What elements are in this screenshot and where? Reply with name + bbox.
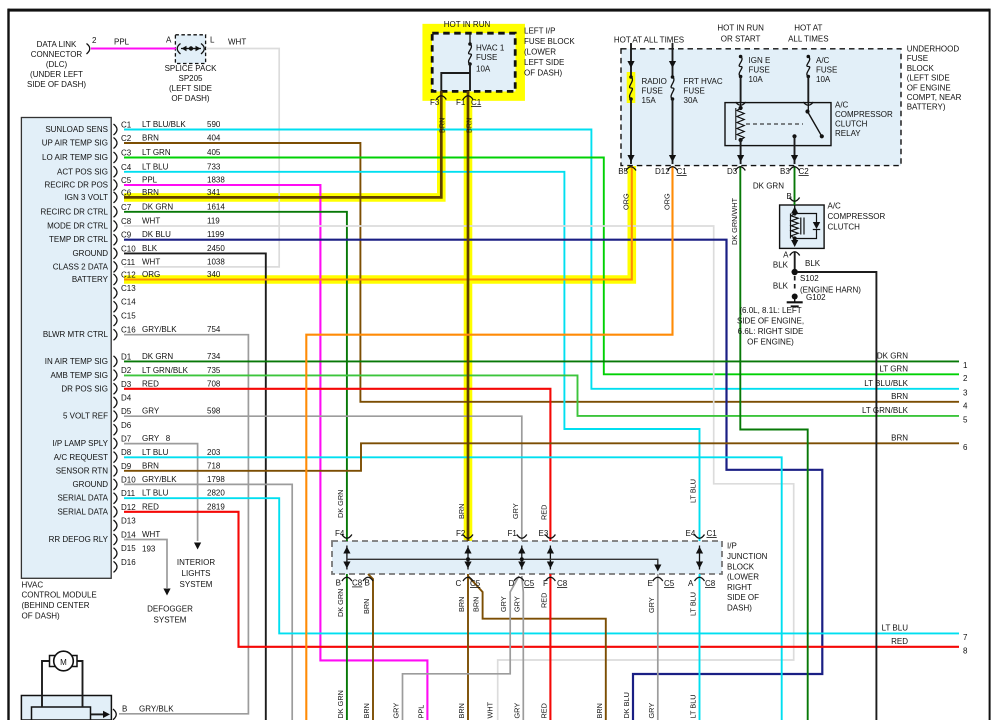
svg-text:10A: 10A xyxy=(476,65,491,74)
svg-text:HOT AT ALL TIMES: HOT AT ALL TIMES xyxy=(614,36,684,45)
svg-text:DEFOGGER: DEFOGGER xyxy=(147,605,193,614)
svg-text:DK GRN: DK GRN xyxy=(877,351,908,360)
svg-text:FUSE BLOCK: FUSE BLOCK xyxy=(524,37,575,46)
svg-text:WHT: WHT xyxy=(228,38,246,47)
svg-text:BRN: BRN xyxy=(362,703,371,718)
svg-text:B: B xyxy=(122,705,127,714)
svg-text:FUSE: FUSE xyxy=(749,66,770,75)
svg-text:A/C: A/C xyxy=(816,56,830,65)
svg-text:OF DASH): OF DASH) xyxy=(171,94,210,103)
svg-text:ORG: ORG xyxy=(622,193,631,210)
svg-text:ORG: ORG xyxy=(662,193,671,210)
svg-text:C13: C13 xyxy=(121,284,136,293)
svg-text:8: 8 xyxy=(963,646,968,655)
svg-text:COMPRESSOR: COMPRESSOR xyxy=(835,110,893,119)
svg-text:B: B xyxy=(365,579,370,588)
svg-text:LT BLU: LT BLU xyxy=(142,448,169,457)
svg-text:10A: 10A xyxy=(749,75,764,84)
svg-text:6.6L: RIGHT SIDE: 6.6L: RIGHT SIDE xyxy=(738,327,804,336)
svg-text:GROUND: GROUND xyxy=(72,249,108,258)
svg-text:SENSOR RTN: SENSOR RTN xyxy=(56,466,109,475)
svg-text:IGN 3 VOLT: IGN 3 VOLT xyxy=(65,193,109,202)
svg-text:BATTERY: BATTERY xyxy=(72,275,109,284)
svg-text:CLUTCH: CLUTCH xyxy=(828,223,861,232)
svg-text:SERIAL DATA: SERIAL DATA xyxy=(57,507,108,516)
svg-text:SIDE OF ENGINE,: SIDE OF ENGINE, xyxy=(737,317,804,326)
svg-text:ALL TIMES: ALL TIMES xyxy=(788,35,828,44)
svg-text:C11: C11 xyxy=(121,258,136,267)
svg-text:D14: D14 xyxy=(121,531,136,540)
svg-text:BRN: BRN xyxy=(142,134,159,143)
svg-text:(DLC): (DLC) xyxy=(46,60,68,69)
svg-text:D8: D8 xyxy=(121,448,132,457)
svg-text:RED: RED xyxy=(539,593,548,608)
svg-text:HVAC 1: HVAC 1 xyxy=(476,44,505,53)
svg-text:D16: D16 xyxy=(121,558,136,567)
svg-text:718: 718 xyxy=(207,461,221,470)
svg-text:B: B xyxy=(787,192,792,201)
svg-text:BATTERY): BATTERY) xyxy=(907,103,946,112)
svg-text:(UNDER LEFT: (UNDER LEFT xyxy=(30,70,83,79)
svg-text:COMPRESSOR: COMPRESSOR xyxy=(828,212,886,221)
svg-text:CONTROL MODULE: CONTROL MODULE xyxy=(22,591,97,600)
svg-text:C6: C6 xyxy=(121,188,132,197)
svg-text:2: 2 xyxy=(963,374,968,383)
svg-text:LT BLU: LT BLU xyxy=(882,623,909,632)
svg-text:DK GRN: DK GRN xyxy=(142,352,173,361)
svg-text:BRN: BRN xyxy=(457,703,466,718)
svg-text:LO AIR TEMP SIG: LO AIR TEMP SIG xyxy=(42,153,108,162)
svg-text:1199: 1199 xyxy=(207,230,225,239)
svg-text:PPL: PPL xyxy=(142,176,158,185)
svg-text:D13: D13 xyxy=(121,517,136,526)
svg-text:B3: B3 xyxy=(780,167,790,176)
svg-text:6: 6 xyxy=(963,443,968,452)
svg-text:WHT: WHT xyxy=(486,701,495,718)
svg-text:LT GRN: LT GRN xyxy=(142,148,171,157)
svg-text:D3: D3 xyxy=(727,167,738,176)
svg-text:C9: C9 xyxy=(121,231,132,240)
svg-text:404: 404 xyxy=(207,134,221,143)
svg-text:OF ENGINE): OF ENGINE) xyxy=(747,338,794,347)
svg-text:C10: C10 xyxy=(121,244,136,253)
svg-text:C1: C1 xyxy=(677,167,688,176)
svg-text:C2: C2 xyxy=(121,134,132,143)
svg-text:LT GRN: LT GRN xyxy=(879,364,908,373)
svg-text:DASH): DASH) xyxy=(727,604,752,613)
svg-text:590: 590 xyxy=(207,120,221,129)
svg-text:(LOWER: (LOWER xyxy=(727,573,759,582)
svg-text:A/C REQUEST: A/C REQUEST xyxy=(54,453,108,462)
svg-text:1614: 1614 xyxy=(207,202,225,211)
svg-text:GRY: GRY xyxy=(512,596,521,612)
svg-text:WHT: WHT xyxy=(142,257,160,266)
svg-text:ACT POS SIG: ACT POS SIG xyxy=(57,167,108,176)
svg-text:C5: C5 xyxy=(121,176,132,185)
svg-text:FRT HVAC: FRT HVAC xyxy=(684,77,723,86)
svg-text:SIDE OF DASH): SIDE OF DASH) xyxy=(27,80,86,89)
svg-text:GRY: GRY xyxy=(142,407,160,416)
svg-text:DK GRN: DK GRN xyxy=(336,490,345,518)
svg-text:D15: D15 xyxy=(121,544,136,553)
svg-text:C5: C5 xyxy=(664,579,675,588)
svg-text:BLWR MTR CTRL: BLWR MTR CTRL xyxy=(43,330,109,339)
svg-text:COMPT, NEAR: COMPT, NEAR xyxy=(907,93,962,102)
svg-text:LT BLU/BLK: LT BLU/BLK xyxy=(864,379,908,388)
svg-text:2: 2 xyxy=(92,36,97,45)
svg-text:RADIO: RADIO xyxy=(642,77,667,86)
svg-text:RECIRC DR POS: RECIRC DR POS xyxy=(44,181,108,190)
svg-text:BLOCK: BLOCK xyxy=(727,562,755,571)
svg-text:733: 733 xyxy=(207,162,221,171)
svg-text:2819: 2819 xyxy=(207,502,225,511)
svg-text:E: E xyxy=(648,579,653,588)
svg-text:SYSTEM: SYSTEM xyxy=(154,616,187,625)
svg-text:C15: C15 xyxy=(121,312,136,321)
svg-text:BLK: BLK xyxy=(142,244,158,253)
svg-text:LT BLU: LT BLU xyxy=(689,694,698,718)
svg-text:WHT: WHT xyxy=(142,217,160,226)
svg-text:203: 203 xyxy=(207,448,221,457)
svg-text:CLUTCH: CLUTCH xyxy=(835,120,868,129)
svg-text:DK BLU: DK BLU xyxy=(622,692,631,718)
svg-text:WHT: WHT xyxy=(142,530,160,539)
svg-text:341: 341 xyxy=(207,188,221,197)
svg-text:2820: 2820 xyxy=(207,489,225,498)
svg-text:DATA LINK: DATA LINK xyxy=(37,40,77,49)
svg-text:GROUND: GROUND xyxy=(72,480,108,489)
svg-text:FUSE: FUSE xyxy=(684,87,705,96)
svg-text:F1: F1 xyxy=(508,529,518,538)
svg-text:F1: F1 xyxy=(456,98,466,107)
svg-text:JUNCTION: JUNCTION xyxy=(727,552,768,561)
svg-text:C16: C16 xyxy=(121,326,136,335)
svg-text:5: 5 xyxy=(963,415,968,424)
svg-text:193: 193 xyxy=(142,545,156,554)
svg-text:GRY: GRY xyxy=(392,703,401,719)
svg-text:HVAC: HVAC xyxy=(22,580,44,589)
svg-text:734: 734 xyxy=(207,352,221,361)
svg-text:OF ENGINE: OF ENGINE xyxy=(907,83,951,92)
svg-text:IGN E: IGN E xyxy=(749,56,771,65)
svg-text:30A: 30A xyxy=(684,96,699,105)
svg-text:735: 735 xyxy=(207,366,221,375)
svg-text:C4: C4 xyxy=(121,163,132,172)
svg-text:L: L xyxy=(210,36,215,45)
svg-text:BLK: BLK xyxy=(773,282,789,291)
svg-text:A: A xyxy=(783,251,789,260)
svg-text:GRY/BLK: GRY/BLK xyxy=(139,705,174,714)
svg-text:DK GRN: DK GRN xyxy=(753,182,784,191)
svg-text:LT BLU/BLK: LT BLU/BLK xyxy=(142,120,186,129)
svg-text:FUSE: FUSE xyxy=(907,54,928,63)
svg-text:FUSE: FUSE xyxy=(816,66,837,75)
svg-text:C8: C8 xyxy=(352,579,363,588)
svg-text:B5: B5 xyxy=(618,167,628,176)
svg-text:BRN: BRN xyxy=(472,597,481,612)
svg-text:I/P: I/P xyxy=(727,542,737,551)
svg-text:1: 1 xyxy=(963,361,968,370)
svg-text:RED: RED xyxy=(142,502,159,511)
svg-text:DK GRN: DK GRN xyxy=(336,690,345,718)
svg-text:DK GRN/WHT: DK GRN/WHT xyxy=(730,197,739,245)
svg-text:C8: C8 xyxy=(705,579,716,588)
svg-text:3: 3 xyxy=(963,388,968,397)
svg-text:S102: S102 xyxy=(800,274,819,283)
svg-text:C1: C1 xyxy=(121,121,132,130)
svg-text:LT GRN/BLK: LT GRN/BLK xyxy=(142,366,189,375)
svg-text:B: B xyxy=(336,579,341,588)
svg-text:C3: C3 xyxy=(121,149,132,158)
svg-text:C: C xyxy=(456,579,462,588)
svg-text:D: D xyxy=(509,579,515,588)
svg-text:CONNECTOR: CONNECTOR xyxy=(31,50,83,59)
svg-text:C8: C8 xyxy=(121,217,132,226)
svg-text:F4: F4 xyxy=(335,529,345,538)
svg-text:SIDE OF: SIDE OF xyxy=(727,593,759,602)
svg-text:A/C: A/C xyxy=(828,202,842,211)
svg-text:ORG: ORG xyxy=(142,270,160,279)
svg-text:CLASS 2 DATA: CLASS 2 DATA xyxy=(53,262,109,271)
svg-text:F3: F3 xyxy=(430,98,440,107)
svg-text:UP AIR TEMP SIG: UP AIR TEMP SIG xyxy=(42,139,108,148)
svg-text:A: A xyxy=(166,36,172,45)
svg-text:(6.0L, 8.1L: LEFT: (6.0L, 8.1L: LEFT xyxy=(739,306,801,315)
svg-text:LT BLU: LT BLU xyxy=(689,592,698,616)
svg-text:15A: 15A xyxy=(642,96,657,105)
svg-text:RED: RED xyxy=(539,703,548,718)
svg-text:SYSTEM: SYSTEM xyxy=(180,580,213,589)
svg-text:RED: RED xyxy=(539,505,548,520)
svg-text:GRY: GRY xyxy=(499,596,508,612)
svg-text:1798: 1798 xyxy=(207,475,225,484)
svg-text:D12: D12 xyxy=(121,503,136,512)
svg-text:E3: E3 xyxy=(539,529,549,538)
svg-text:GRY: GRY xyxy=(647,597,656,613)
svg-text:HOT IN RUN: HOT IN RUN xyxy=(717,24,764,33)
svg-text:(LEFT SIDE: (LEFT SIDE xyxy=(907,74,950,83)
svg-text:7: 7 xyxy=(963,633,968,642)
svg-text:C2: C2 xyxy=(799,167,810,176)
svg-text:RED: RED xyxy=(142,379,159,388)
svg-text:E4: E4 xyxy=(686,529,696,538)
svg-text:RR DEFOG RLY: RR DEFOG RLY xyxy=(49,535,109,544)
svg-text:D10: D10 xyxy=(121,476,136,485)
svg-text:HOT IN RUN: HOT IN RUN xyxy=(444,20,491,29)
svg-text:BRN: BRN xyxy=(457,597,466,612)
svg-text:SPLICE PACK: SPLICE PACK xyxy=(165,64,218,73)
svg-text:F: F xyxy=(543,579,548,588)
svg-text:DK GRN: DK GRN xyxy=(336,589,345,617)
svg-text:D12: D12 xyxy=(655,167,670,176)
svg-text:D6: D6 xyxy=(121,421,132,430)
svg-text:MODE DR CTRL: MODE DR CTRL xyxy=(47,222,108,231)
svg-text:GRY: GRY xyxy=(647,703,656,719)
svg-text:FUSE: FUSE xyxy=(476,53,497,62)
svg-text:1038: 1038 xyxy=(207,257,225,266)
svg-text:D11: D11 xyxy=(121,489,136,498)
svg-text:D7: D7 xyxy=(121,434,132,443)
svg-text:RED: RED xyxy=(891,637,908,646)
svg-text:598: 598 xyxy=(207,407,221,416)
svg-text:M: M xyxy=(60,658,67,667)
svg-text:G102: G102 xyxy=(806,293,826,302)
svg-text:PPL: PPL xyxy=(114,38,130,47)
svg-text:BLK: BLK xyxy=(805,259,821,268)
svg-text:I/P LAMP SPLY: I/P LAMP SPLY xyxy=(52,439,108,448)
svg-text:A/C: A/C xyxy=(835,101,849,110)
svg-text:DR POS SIG: DR POS SIG xyxy=(61,384,108,393)
svg-text:SUNLOAD SENS: SUNLOAD SENS xyxy=(45,125,108,134)
svg-text:SERIAL DATA: SERIAL DATA xyxy=(57,494,108,503)
svg-text:INTERIOR: INTERIOR xyxy=(177,558,215,567)
svg-text:BRN: BRN xyxy=(465,118,474,133)
svg-text:GRY/BLK: GRY/BLK xyxy=(142,325,177,334)
svg-text:BRN: BRN xyxy=(362,599,371,614)
svg-text:LT BLU: LT BLU xyxy=(142,489,169,498)
svg-text:AMB TEMP SIG: AMB TEMP SIG xyxy=(51,371,109,380)
svg-text:SP205: SP205 xyxy=(178,74,203,83)
svg-text:GRY/BLK: GRY/BLK xyxy=(142,475,177,484)
svg-text:UNDERHOOD: UNDERHOOD xyxy=(907,45,960,54)
svg-text:LEFT I/P: LEFT I/P xyxy=(524,27,555,36)
svg-text:DK BLU: DK BLU xyxy=(142,230,171,239)
svg-text:TEMP DR CTRL: TEMP DR CTRL xyxy=(49,235,109,244)
svg-text:BRN: BRN xyxy=(142,188,159,197)
svg-text:D5: D5 xyxy=(121,407,132,416)
svg-text:GRY 8: GRY 8 xyxy=(142,434,171,443)
svg-text:2450: 2450 xyxy=(207,244,225,253)
svg-text:GRY: GRY xyxy=(512,703,521,719)
svg-text:BRN: BRN xyxy=(142,461,159,470)
svg-text:10A: 10A xyxy=(816,75,831,84)
svg-text:754: 754 xyxy=(207,325,221,334)
svg-text:C8: C8 xyxy=(557,579,568,588)
svg-text:340: 340 xyxy=(207,270,221,279)
svg-text:119: 119 xyxy=(207,217,220,226)
svg-text:C5: C5 xyxy=(524,579,535,588)
svg-text:4: 4 xyxy=(963,401,968,410)
svg-text:D9: D9 xyxy=(121,462,132,471)
svg-text:(LEFT SIDE: (LEFT SIDE xyxy=(169,84,212,93)
svg-text:LEFT SIDE: LEFT SIDE xyxy=(524,58,564,67)
svg-text:LIGHTS: LIGHTS xyxy=(182,569,211,578)
svg-text:C14: C14 xyxy=(121,298,136,307)
svg-text:BRN: BRN xyxy=(595,703,604,718)
svg-text:C1: C1 xyxy=(471,98,482,107)
svg-text:F2: F2 xyxy=(456,529,466,538)
svg-text:BLK: BLK xyxy=(773,261,789,270)
svg-text:BRN: BRN xyxy=(457,504,466,519)
svg-text:BRN: BRN xyxy=(891,433,908,442)
svg-text:A: A xyxy=(688,579,694,588)
svg-text:PPL: PPL xyxy=(416,705,425,719)
svg-text:RECIRC DR CTRL: RECIRC DR CTRL xyxy=(40,207,108,216)
svg-text:D4: D4 xyxy=(121,393,132,402)
svg-text:D1: D1 xyxy=(121,352,132,361)
svg-text:LT GRN/BLK: LT GRN/BLK xyxy=(862,406,909,415)
svg-text:BRN: BRN xyxy=(438,118,447,133)
svg-text:LT BLU: LT BLU xyxy=(689,479,698,503)
svg-text:D2: D2 xyxy=(121,366,132,375)
svg-text:BRN: BRN xyxy=(891,392,908,401)
svg-text:5 VOLT REF: 5 VOLT REF xyxy=(63,412,108,421)
svg-text:HOT AT: HOT AT xyxy=(794,24,822,33)
svg-text:C7: C7 xyxy=(121,203,132,212)
svg-text:OR START: OR START xyxy=(721,35,761,44)
svg-text:RELAY: RELAY xyxy=(835,129,861,138)
svg-text:C1: C1 xyxy=(707,529,718,538)
svg-text:C12: C12 xyxy=(121,271,136,280)
svg-text:GRY: GRY xyxy=(511,503,520,519)
svg-text:1838: 1838 xyxy=(207,176,225,185)
svg-text:708: 708 xyxy=(207,379,221,388)
svg-text:DK GRN: DK GRN xyxy=(142,202,173,211)
svg-text:FUSE: FUSE xyxy=(642,87,663,96)
svg-text:D3: D3 xyxy=(121,380,132,389)
svg-text:(BEHIND CENTER: (BEHIND CENTER xyxy=(22,601,90,610)
svg-text:RIGHT: RIGHT xyxy=(727,583,752,592)
svg-text:OF DASH): OF DASH) xyxy=(524,69,563,78)
svg-text:LT BLU: LT BLU xyxy=(142,162,169,171)
svg-text:(LOWER: (LOWER xyxy=(524,48,556,57)
svg-text:IN AIR TEMP SIG: IN AIR TEMP SIG xyxy=(45,357,108,366)
svg-text:C5: C5 xyxy=(470,579,481,588)
svg-text:OF DASH): OF DASH) xyxy=(22,612,61,621)
svg-text:405: 405 xyxy=(207,148,221,157)
svg-text:BLOCK: BLOCK xyxy=(907,64,935,73)
